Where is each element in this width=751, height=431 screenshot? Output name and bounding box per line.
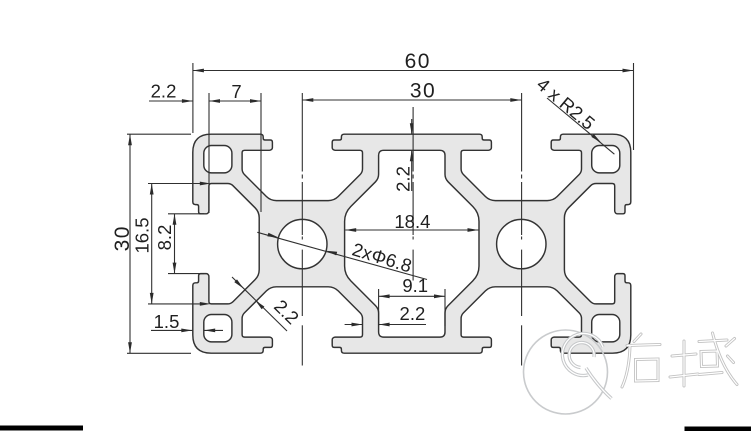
leader 2x phi6.8 bores bbox=[257, 232, 427, 279]
svg-text:30: 30 bbox=[410, 80, 436, 103]
profile body outline with slot cavities bbox=[193, 134, 631, 353]
corner hole bottom-right bbox=[592, 315, 620, 342]
svg-text:4 x R2.5: 4 x R2.5 bbox=[533, 73, 599, 133]
dim 16.5 slot cavity height bbox=[148, 184, 203, 304]
svg-text:8.2: 8.2 bbox=[154, 225, 175, 251]
svg-text:2.2: 2.2 bbox=[270, 295, 303, 328]
svg-text:2.2: 2.2 bbox=[393, 166, 414, 192]
dim 18.4 centre bay width bbox=[345, 229, 478, 231]
dim 2.2 web thickness (diagonal) bbox=[232, 277, 287, 331]
svg-text:7: 7 bbox=[231, 81, 241, 102]
centreline right bore bbox=[521, 93, 523, 366]
frame bar bottom-right bbox=[685, 427, 751, 431]
svg-text:9.1: 9.1 bbox=[402, 275, 428, 296]
dim 60 overall width bbox=[193, 63, 634, 150]
corner hole top-right bbox=[592, 146, 620, 173]
watermark hanzi qi yu bbox=[622, 333, 737, 387]
watermark logo circle bbox=[524, 330, 608, 414]
dim 7 corner block bbox=[209, 93, 261, 212]
dim 9.1 stem spacing bbox=[379, 289, 445, 326]
dim 2.2 flange thickness bbox=[411, 119, 413, 191]
svg-text:18.4: 18.4 bbox=[394, 211, 430, 232]
dim 2.2 stem thickness bbox=[345, 324, 426, 326]
svg-text:1.5: 1.5 bbox=[154, 311, 180, 332]
centreline middle bbox=[412, 107, 414, 281]
dim 1.5 corner hole offset bbox=[151, 329, 223, 331]
svg-text:2xΦ6.8: 2xΦ6.8 bbox=[350, 239, 415, 277]
corner hole bottom-left bbox=[204, 315, 232, 342]
dim 2.2 edge wall bbox=[149, 93, 209, 213]
svg-text:2.2: 2.2 bbox=[151, 81, 177, 102]
svg-text:60: 60 bbox=[405, 50, 431, 73]
watermark logo Q bbox=[562, 334, 611, 399]
leader 4xR2.5 corner radius bbox=[547, 98, 614, 154]
dim 30 overall height bbox=[127, 134, 191, 353]
corner hole top-left bbox=[204, 146, 232, 173]
dim 8.2 slot opening bbox=[168, 214, 204, 274]
centre bore left (phi 6.8) bbox=[278, 219, 327, 268]
centre bore right (phi 6.8) bbox=[497, 219, 546, 268]
frame bar bottom-left bbox=[0, 426, 83, 431]
svg-text:2.2: 2.2 bbox=[400, 303, 426, 324]
svg-text:16.5: 16.5 bbox=[132, 217, 153, 253]
centreline left bore bbox=[301, 93, 303, 366]
dim 30 bore spacing bbox=[302, 99, 521, 101]
